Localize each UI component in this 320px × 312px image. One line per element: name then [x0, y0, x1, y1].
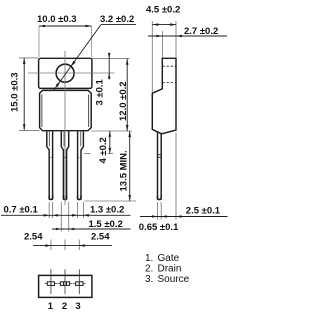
- svg-text:3: 3: [75, 301, 80, 312]
- svg-text:2.54: 2.54: [24, 232, 43, 243]
- svg-text:Drain: Drain: [158, 263, 182, 274]
- svg-text:1: 1: [48, 301, 54, 312]
- svg-text:Source: Source: [158, 274, 190, 285]
- svg-text:2.: 2.: [145, 263, 153, 274]
- svg-text:10.0 ±0.3: 10.0 ±0.3: [37, 14, 77, 25]
- svg-text:3.2 ±0.2: 3.2 ±0.2: [100, 14, 134, 25]
- svg-text:0.7 ±0.1: 0.7 ±0.1: [4, 204, 39, 215]
- svg-text:12.0 ±0.2: 12.0 ±0.2: [118, 81, 129, 121]
- svg-text:15.0 ±0.3: 15.0 ±0.3: [10, 72, 21, 112]
- svg-text:0.65 ±0.1: 0.65 ±0.1: [139, 222, 179, 233]
- svg-text:1.5 ±0.2: 1.5 ±0.2: [89, 219, 123, 230]
- svg-text:2: 2: [62, 301, 67, 312]
- svg-text:3.: 3.: [145, 274, 153, 285]
- svg-text:4 ±0.2: 4 ±0.2: [98, 137, 109, 163]
- svg-text:2.54: 2.54: [91, 232, 110, 243]
- svg-text:1.: 1.: [145, 253, 153, 264]
- svg-text:2.5 ±0.1: 2.5 ±0.1: [186, 205, 221, 216]
- svg-text:3 ±0.1: 3 ±0.1: [95, 78, 106, 105]
- svg-text:4.5 ±0.2: 4.5 ±0.2: [146, 5, 180, 16]
- svg-text:13.5 MIN.: 13.5 MIN.: [119, 150, 130, 191]
- svg-text:1.3 ±0.2: 1.3 ±0.2: [90, 205, 124, 216]
- svg-text:Gate: Gate: [158, 253, 180, 264]
- svg-text:2.7 ±0.2: 2.7 ±0.2: [184, 26, 218, 37]
